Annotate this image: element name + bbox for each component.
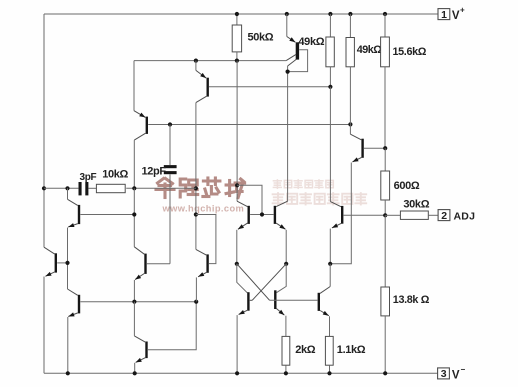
wire x134 column: [133, 188, 135, 247]
wire Q13 emitter drop: [285, 230, 287, 264]
Q13 emitter arrow: [276, 223, 285, 229]
wire Q2 base: [209, 86, 330, 88]
wire Q2 emitter stub: [195, 61, 197, 71]
Q2 collector diag: [196, 96, 207, 102]
transistor Q11 NPN: [206, 254, 208, 272]
pin 1 box: [438, 9, 450, 21]
junction bottom Q14: [235, 371, 239, 375]
wire Q4 collector stub: [349, 124, 351, 134]
wire bottom rail V-: [44, 372, 438, 374]
wire Q1 collector column: [133, 140, 135, 188]
resistor 2k: [282, 336, 290, 365]
Q3 collector diag: [288, 59, 297, 66]
wire 50k bottom: [236, 52, 238, 61]
Q5 emitter arrow: [332, 223, 341, 228]
Q7 collector diag: [68, 199, 78, 205]
junction x134 Q7base: [132, 212, 136, 216]
Q1 emitter arrow: [134, 111, 145, 118]
Q12 collector diag: [237, 201, 247, 206]
junction nodeB Q2: [194, 59, 198, 63]
Q12 emitter arrow: [238, 223, 248, 229]
svg-text:49kΩ: 49kΩ: [298, 36, 324, 48]
Q4 collector diag: [350, 134, 361, 140]
resistor 10k: [96, 184, 125, 192]
wire Q9 base: [147, 263, 170, 265]
transistor Q8 NPN: [78, 295, 80, 314]
watermark text hqchip group line1: [273, 180, 333, 188]
Q10 emitter arrow: [136, 358, 146, 363]
label 15.6k: [393, 46, 427, 58]
svg-text:13.8k Ω: 13.8k Ω: [393, 294, 430, 306]
wire base tie upper pair: [237, 185, 262, 214]
junction ADJ node: [383, 213, 387, 217]
wire Q16 collector up: [329, 264, 331, 287]
wire 188 seg1: [44, 187, 78, 189]
resistor 1.1k: [325, 336, 333, 365]
wire 49k1 bottom: [329, 67, 331, 87]
wire Q6 base: [57, 262, 67, 264]
junction wire188 x67: [65, 186, 69, 190]
Q6 collector diag: [44, 247, 55, 254]
Q11 collector diag: [196, 249, 206, 255]
svg-text:2: 2: [441, 210, 447, 222]
transistor Q10 NPN: [145, 342, 147, 359]
label 49k first: [298, 36, 324, 48]
wire 188 seg2: [88, 187, 96, 189]
transistor Q1 PNP: [146, 117, 148, 134]
svg-text:3: 3: [441, 368, 447, 380]
Q10 collector diag: [134, 336, 145, 342]
svg-text:1.1kΩ: 1.1kΩ: [337, 344, 366, 356]
transistor Q14 NPN: [247, 292, 249, 311]
capacitor 12pF: [164, 165, 177, 174]
junction wire188 x134: [132, 186, 136, 190]
Q16 collector diag: [320, 287, 330, 294]
svg-text:ADJ: ADJ: [454, 211, 476, 223]
capacitor 3pF: [79, 182, 89, 195]
transistor Q16 NPN: [318, 293, 320, 311]
transistor Q15 NPN: [274, 290, 276, 309]
label 1.1k: [337, 344, 366, 356]
label 12pF: [142, 166, 167, 178]
junction Q3 collector-base: [286, 70, 290, 74]
label 600: [394, 180, 420, 192]
wire Q5 emitter drop: [329, 229, 331, 264]
wire 49k1 top: [329, 14, 331, 37]
wire Q16 emitter drop: [329, 316, 331, 336]
wire 49k2 top: [349, 14, 351, 38]
junction bottom 13.8k: [383, 371, 387, 375]
svg-text:3pF: 3pF: [80, 172, 97, 183]
junction left rail wire188: [42, 186, 46, 190]
junction nodeB 50k: [235, 59, 239, 63]
junction Q8base x196: [194, 300, 198, 304]
Q11 emitter arrow: [198, 272, 206, 277]
transistor Q12 NPN: [247, 206, 249, 224]
transistor Q7 NPN: [78, 205, 80, 224]
junction emitter node mid: [284, 262, 288, 266]
label 10k: [102, 169, 128, 181]
wire 2k bottom: [285, 365, 287, 373]
wire 15.6k bottom: [384, 67, 386, 148]
watermark url www.hqchip.com: [162, 204, 245, 214]
svg-text:www.hqchip.com: www.hqchip.com: [162, 204, 245, 214]
wire Q2 collector column: [195, 103, 197, 250]
wire Q15 collector: [277, 264, 287, 293]
wire Q15-Q16 base: [270, 299, 318, 301]
Q9 collector diag: [134, 247, 144, 254]
transistor Q4 NPN: [361, 139, 363, 158]
wire Q4 base: [364, 147, 385, 149]
wire 188 seg3: [126, 187, 196, 189]
wire 600 bottom: [384, 200, 386, 215]
wire Q7-Q8 column: [67, 228, 69, 290]
junction bottom 1.1k: [327, 371, 331, 375]
transistor Q9 NPN: [144, 254, 146, 274]
junction wire188 Q2col: [194, 186, 198, 190]
svg-text:30kΩ: 30kΩ: [403, 199, 429, 211]
junction bottom Q8: [66, 371, 70, 375]
junction top 50k: [235, 12, 239, 16]
junction comp 49k2: [348, 122, 352, 126]
transistor Q3 PNP: [296, 42, 299, 59]
Q4 emitter arrow: [352, 157, 361, 162]
Q8 emitter arrow: [68, 312, 78, 316]
wire 13.8k top: [384, 215, 386, 287]
wire Q7 base: [80, 214, 134, 216]
Q16 emitter arrow: [320, 311, 329, 316]
Q1 collector diag: [134, 133, 145, 140]
resistor 13.8k: [381, 287, 390, 316]
transistor Q13 NPN: [274, 206, 276, 224]
junction base-tie upper pair: [235, 183, 239, 187]
label 13.8k: [393, 294, 430, 306]
svg-text:V: V: [452, 10, 460, 22]
junction top 49k2: [348, 12, 352, 16]
wire 50k top: [236, 14, 238, 25]
junction emitter node left: [235, 262, 239, 266]
resistor 50k: [232, 25, 241, 52]
watermark hqchip logo text: [156, 178, 245, 198]
svg-text:1: 1: [441, 9, 447, 21]
wire Q10 base loop: [148, 302, 196, 350]
pin 3 box: [438, 368, 450, 380]
wire Q15 emitter drop: [285, 316, 287, 337]
svg-text:2kΩ: 2kΩ: [295, 344, 316, 356]
cross wire A: [237, 264, 270, 301]
junction Q6 base tap: [65, 261, 69, 265]
junction top 15.6k: [383, 12, 387, 16]
label 3pF: [80, 172, 97, 183]
wire Q8 base: [80, 301, 196, 303]
svg-text:15.6kΩ: 15.6kΩ: [393, 46, 427, 58]
resistor 49k first: [326, 37, 334, 67]
Q9 emitter arrow: [135, 274, 144, 280]
Q5 collector diag: [330, 202, 341, 207]
label 2k: [295, 344, 316, 356]
wire 1.1k bottom: [329, 365, 331, 373]
resistor 30k: [400, 211, 428, 219]
wire Q8 emitter drop: [67, 317, 69, 373]
transistor Q6 NPN: [55, 253, 57, 272]
wire Q10 collector stub: [133, 302, 135, 336]
pin 2 box: [438, 210, 450, 222]
transistor Q2 PNP: [206, 78, 208, 97]
Q2 emitter arrow: [196, 70, 206, 78]
svg-text:V: V: [452, 370, 460, 382]
svg-text:12pF: 12pF: [142, 166, 167, 178]
svg-text:50kΩ: 50kΩ: [248, 32, 274, 44]
label 50k: [248, 32, 274, 44]
wire node B horizontal: [134, 60, 286, 62]
wire Q7 collector stub: [67, 188, 69, 199]
wire left rail upper: [43, 14, 45, 247]
junction bottom 2k: [284, 371, 288, 375]
watermark text hqchip group line2: [273, 193, 367, 204]
resistor 49k second: [346, 38, 354, 67]
wire Q1 emitter drop: [133, 61, 135, 111]
Q8 collector diag: [68, 289, 78, 295]
Q11 base loop: [196, 215, 216, 264]
Q3 base loop: [288, 50, 308, 72]
label V+: [452, 6, 465, 23]
wire 12pF top: [169, 125, 171, 166]
Q3 emitter arrow: [287, 37, 296, 43]
resistor 15.6k: [381, 37, 390, 67]
wire top rail V+: [44, 13, 438, 15]
junction top Q3: [285, 12, 289, 16]
junction 49k1 base wire: [328, 85, 332, 89]
label 49k second: [357, 44, 383, 56]
wire comp node horizontal: [148, 124, 350, 126]
wire ADJ left: [385, 214, 400, 216]
wire 13.8k bottom: [384, 316, 386, 373]
wire 12pF bottom: [169, 174, 171, 264]
wire left rail lower: [43, 277, 45, 374]
wire Q14 emitter drop: [236, 315, 238, 373]
svg-text:49kΩ: 49kΩ: [357, 44, 383, 56]
junction bottom Q10: [133, 371, 137, 375]
wire Q9 emitter drop: [133, 280, 135, 302]
wire Q12-Q13 base: [250, 214, 274, 216]
Q6 emitter arrow: [45, 272, 54, 276]
svg-text:−: −: [461, 365, 466, 374]
junction emitter node right: [328, 262, 332, 266]
Q15 emitter arrow: [277, 309, 285, 316]
Q3 nodeB end diag: [286, 54, 296, 60]
cross wire B: [252, 264, 286, 301]
Q14 emitter arrow: [239, 310, 248, 315]
Q7 emitter arrow: [68, 223, 78, 227]
wire Q5 collector column: [329, 87, 331, 202]
label ADJ: [454, 211, 476, 223]
svg-text:10kΩ: 10kΩ: [102, 169, 128, 181]
resistor 600: [381, 171, 390, 200]
junction comp 12pF: [168, 122, 172, 126]
junction top 49k1: [328, 12, 332, 16]
wire Q14 collector: [237, 264, 248, 293]
wire Q4 emitter column: [330, 163, 351, 264]
wire Q3 collector column: [287, 66, 289, 201]
wire Q10 emitter drop: [134, 363, 136, 374]
wire 49k2 bottom: [349, 67, 351, 125]
wire ADJ right: [428, 214, 438, 216]
transistor Q5 NPN: [341, 206, 343, 224]
wire Q3 emitter drop: [286, 14, 288, 37]
svg-text:600Ω: 600Ω: [394, 180, 420, 192]
junction base tie lower: [260, 212, 264, 216]
wire Q12 emitter drop: [236, 230, 238, 264]
Q14 base stub: [250, 299, 252, 301]
wire Q11 emitter drop: [195, 277, 197, 301]
label 30k: [403, 199, 429, 211]
junction Q8base x134: [132, 300, 136, 304]
svg-text:+: +: [460, 6, 465, 15]
wire Q5 base ADJ: [344, 214, 386, 216]
wire 15.6k top: [384, 14, 386, 37]
Q13 collector diag: [276, 201, 287, 206]
junction Q11 tie: [194, 212, 198, 216]
wire 50k column: [236, 61, 238, 202]
label V-: [452, 365, 466, 382]
junction Q4 base 600: [383, 146, 387, 150]
wire 600 top: [384, 148, 386, 171]
